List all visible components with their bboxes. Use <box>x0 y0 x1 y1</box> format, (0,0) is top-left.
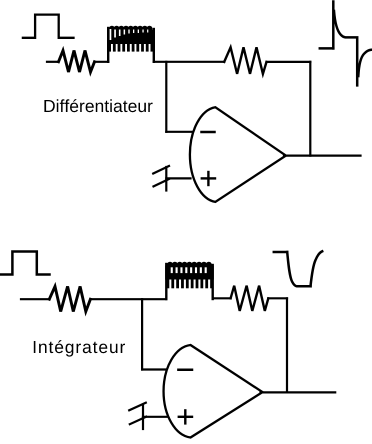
U1 inverting input minus sign <box>202 131 215 134</box>
wire: coil L2 to R4 <box>213 297 231 299</box>
op-amp U1 (differentiator) <box>190 107 286 202</box>
wire: ground to U1 non-inverting input <box>166 177 190 179</box>
input square pulse waveform (differentiator) <box>23 15 74 38</box>
op-amp U2 (integrator) <box>164 345 263 438</box>
resistor R4 (integrator feedback) <box>231 286 269 311</box>
resistor R3 (integrator input) <box>49 286 90 311</box>
wire: input to R1 <box>47 61 59 63</box>
input square pulse waveform (integrator) <box>1 252 50 275</box>
wire: input to R3 <box>21 298 50 300</box>
output waveform (differentiated pulse) <box>320 2 371 86</box>
wire: R2 to output corner <box>267 61 311 63</box>
node A: vertical wire down to inverting input <box>165 62 167 132</box>
label: Différentiateur <box>44 99 152 112</box>
resistor R2 (differentiator feedback) <box>224 47 266 74</box>
wire: feedback vertical down to output node <box>309 62 311 156</box>
wire: R1 to coil L1 <box>95 61 109 63</box>
wire: U2 output <box>261 391 336 393</box>
wire: U1 output <box>284 155 361 157</box>
wire: R3 to node B and coil L2 <box>90 298 166 300</box>
node B: vertical wire down to inverting input <box>141 299 143 369</box>
wire: node A to U1 inverting input <box>166 131 192 133</box>
output waveform (integrated pulse) <box>274 251 322 286</box>
wire: R4 to feedback corner <box>268 297 287 299</box>
label: Intégrateur <box>34 340 125 357</box>
U2 inverting input minus sign <box>178 369 192 372</box>
wire: ground to U2 non-inverting input <box>143 416 167 418</box>
wire: node B to U2 inverting input <box>142 368 167 370</box>
coil L1 (scribbled inductor, differentiator) <box>107 26 155 62</box>
resistor R1 (differentiator input) <box>59 51 95 73</box>
wire: feedback vertical down to output node <box>286 298 288 392</box>
ground symbol (U1 + input) <box>153 166 169 191</box>
U2 non-inverting input plus sign <box>179 416 192 418</box>
ground symbol (U2 + input) <box>129 403 146 429</box>
wire: coil L1 to node A and on to R2 <box>154 61 224 63</box>
U1 non-inverting input plus sign <box>202 177 215 179</box>
coil L2 (scribbled inductor, integrator feedback) <box>165 262 214 299</box>
